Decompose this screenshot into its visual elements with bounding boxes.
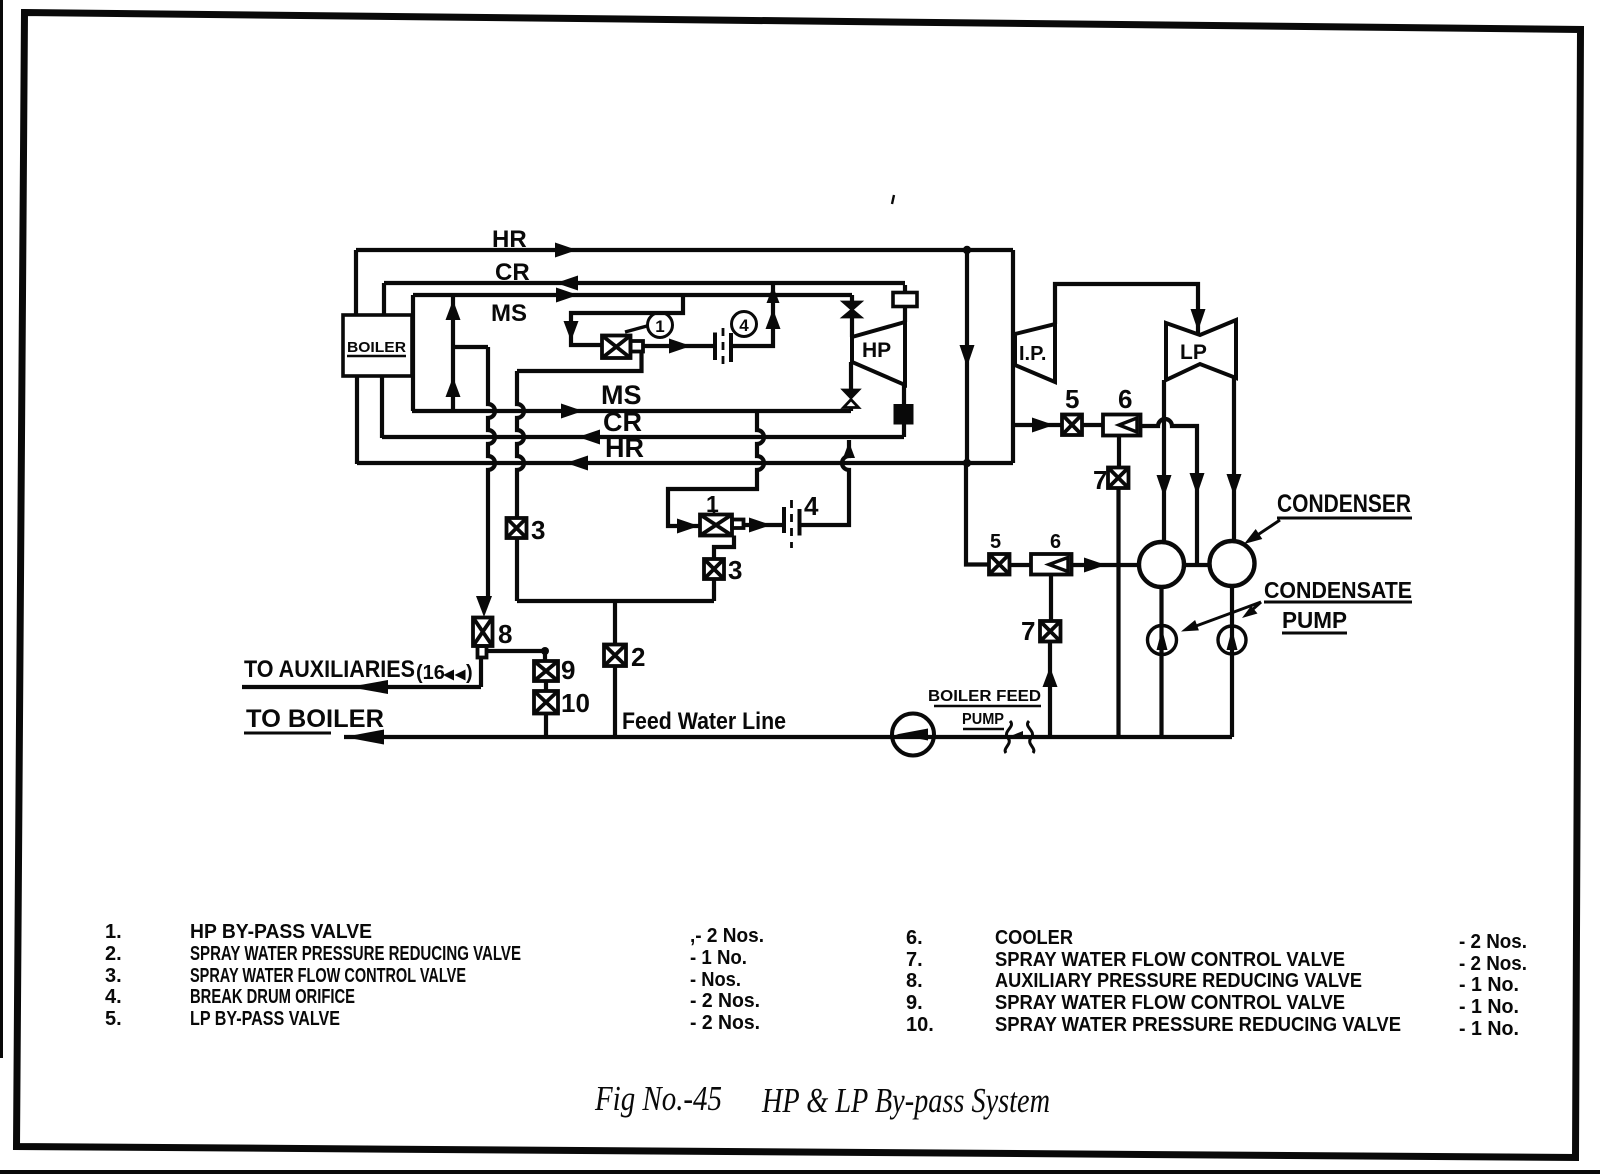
- outer thin bottom edge line: [0, 1170, 1600, 1174]
- wire valve1 upper spray drain: [517, 352, 642, 372]
- svg-text:I.P.: I.P.: [1019, 343, 1046, 365]
- arrow CR bottom: [578, 430, 600, 445]
- valve 9: [534, 661, 558, 681]
- svg-text:HP: HP: [862, 339, 891, 362]
- wire device to CR bottom: [902, 425, 906, 438]
- arrow down into LP: [1191, 309, 1206, 331]
- svg-text:SPRAY WATER FLOW CONTROL VALVE: SPRAY WATER FLOW CONTROL VALVE: [995, 992, 1345, 1014]
- HP bypass assembly upper: wire tap from MS top: [571, 295, 683, 345]
- arrow MS bottom: [561, 404, 583, 419]
- arrow into condenser 1: [1084, 558, 1106, 573]
- svg-text:COOLER: COOLER: [995, 927, 1074, 949]
- wire HP exhaust down: [902, 385, 906, 404]
- svg-text:1: 1: [655, 317, 664, 336]
- svg-text:(16: (16: [416, 662, 445, 684]
- svg-text:2: 2: [631, 642, 645, 672]
- wire boiler top to HR: [354, 250, 358, 316]
- wire valve 7 top down to feed line: [1116, 488, 1120, 737]
- IP turbine: [1015, 324, 1055, 382]
- arrow in pump 2: [1227, 629, 1238, 650]
- svg-text:- 1 No.: - 1 No.: [1459, 996, 1519, 1018]
- node header bottom junction: [963, 459, 971, 467]
- wire stop valve to turbine: [850, 317, 854, 337]
- exhaust device (black square): [894, 404, 914, 425]
- wire LP drain right: [1232, 378, 1236, 541]
- svg-text:7: 7: [1021, 616, 1035, 646]
- svg-text:- 1 No.: - 1 No.: [690, 947, 747, 969]
- svg-text:2.: 2.: [105, 943, 122, 965]
- wire orifice to CR bottom riser with jump: [800, 440, 850, 525]
- wire valve3L down: [515, 538, 519, 601]
- valve 7 bottom: [1040, 621, 1061, 642]
- wire MS riser x453: [451, 295, 455, 411]
- wire cooler top to valve 7 top: [1117, 436, 1121, 468]
- control box on HP exhaust: [893, 293, 917, 307]
- arrow on outlet: [669, 339, 691, 354]
- svg-text:LP: LP: [1180, 341, 1207, 364]
- svg-text:9.: 9.: [906, 992, 923, 1014]
- wire cooler top outlet with jump over LP drain: [1141, 419, 1198, 566]
- svg-text:- 1 No.: - 1 No.: [1459, 1018, 1519, 1040]
- svg-text:MS: MS: [601, 380, 642, 410]
- svg-text:- 2 Nos.: - 2 Nos.: [690, 990, 760, 1012]
- arrow down LP drain right: [1227, 474, 1242, 496]
- wire cooler 6 bottom to valve 7 bottom: [1049, 575, 1053, 622]
- valve 1 lower body: [700, 515, 744, 536]
- svg-text:5: 5: [990, 531, 1001, 553]
- wire condenser connector: [1184, 563, 1210, 567]
- svg-text:HP BY-PASS VALVE: HP BY-PASS VALVE: [190, 921, 372, 943]
- arrow up on riser top: [446, 300, 461, 320]
- svg-text:PUMP: PUMP: [962, 711, 1004, 728]
- svg-text:3.: 3.: [105, 965, 122, 987]
- wire MS bottom line: [412, 409, 851, 413]
- svg-text:HR: HR: [605, 433, 644, 463]
- arrow up on riser bottom: [446, 377, 461, 397]
- svg-text:SPRAY WATER PRESSURE REDUCING: SPRAY WATER PRESSURE REDUCING VALVE: [190, 943, 521, 965]
- svg-text:CONDENSATE: CONDENSATE: [1264, 577, 1412, 603]
- svg-text:4.: 4.: [105, 986, 122, 1008]
- wire LP drain left: [1162, 380, 1166, 542]
- wire IP exhaust to LP inlet: [1055, 284, 1198, 333]
- svg-text:1.: 1.: [105, 921, 122, 943]
- orifice upper (break drum): [715, 328, 731, 367]
- wire MS bottom into lower stop valve: [849, 408, 853, 411]
- svg-text:3: 3: [531, 515, 545, 545]
- wire valve1 lower outlet: [744, 523, 785, 527]
- feed water line: [344, 735, 1232, 739]
- wire CR top to control box: [903, 285, 907, 293]
- svg-text:8.: 8.: [906, 970, 923, 992]
- svg-text:Feed Water Line: Feed Water Line: [622, 708, 786, 735]
- wire CR top line: [384, 281, 905, 285]
- arrow HR top: [555, 243, 577, 258]
- arrow to valve 5 top: [1032, 418, 1054, 433]
- HP turbine: [852, 322, 905, 385]
- arrow up at CR bottom: [843, 442, 855, 458]
- arrow HR bottom: [566, 456, 588, 471]
- wire orifice to CR riser: [731, 285, 773, 346]
- wire valve3R up to valve1 drain: [714, 536, 734, 560]
- svg-text:BREAK DRUM ORIFICE: BREAK DRUM ORIFICE: [190, 986, 355, 1008]
- wire valve8 side tap: [487, 649, 546, 653]
- svg-text:6.: 6.: [906, 927, 923, 949]
- svg-text:BOILER FEED: BOILER FEED: [928, 688, 1041, 705]
- svg-text:9: 9: [561, 655, 575, 685]
- LP bypass top: wire header to valve 5: [1013, 423, 1062, 427]
- svg-text:6: 6: [1118, 384, 1132, 414]
- svg-text:1: 1: [706, 491, 719, 517]
- arrow up into valve 7 bottom: [1043, 667, 1058, 687]
- valve 2: [604, 645, 626, 667]
- arrow down into valve 8: [476, 596, 492, 617]
- stop valve top (hourglass): [844, 302, 861, 317]
- label 1 lower: [706, 491, 719, 517]
- speck mark: [892, 195, 894, 204]
- node header top junction: [963, 246, 971, 254]
- svg-text:HP & LP By-pass System: HP & LP By-pass System: [761, 1081, 1050, 1120]
- condenser 2: [1210, 541, 1255, 586]
- wire boiler right edge MS riser: [411, 295, 415, 411]
- condensate pump 2: [1218, 626, 1246, 654]
- svg-text:6: 6: [1050, 531, 1061, 553]
- wire valve2 to feed line: [613, 666, 617, 737]
- node junction dot: [541, 647, 549, 655]
- svg-text:5: 5: [1065, 384, 1079, 414]
- circled 1 annotation: [648, 313, 673, 338]
- valve 7 top: [1108, 468, 1129, 489]
- arrow down to condenser middle: [1190, 473, 1205, 495]
- arrow on lower outlet: [749, 518, 771, 533]
- wire boiler bottom to HR return: [355, 376, 359, 464]
- arrow in boiler feed pump: [896, 729, 928, 741]
- valve 1 upper body: [602, 336, 643, 359]
- arrow in pump 1: [1157, 629, 1168, 650]
- boiler label: [347, 339, 406, 356]
- svg-text:10.: 10.: [906, 1014, 934, 1036]
- svg-text:Fig No.-45: Fig No.-45: [594, 1079, 722, 1118]
- label TO BOILER: [244, 705, 384, 733]
- wire valve8 to aux line: [479, 658, 483, 688]
- valve 8 pressure reducing: [473, 618, 493, 658]
- svg-text:AUXILIARY PRESSURE REDUCING VA: AUXILIARY PRESSURE REDUCING VALVE: [995, 970, 1362, 992]
- svg-text:7.: 7.: [906, 949, 923, 971]
- wire control box to turbine: [903, 307, 907, 323]
- stop valve bottom (hourglass): [844, 390, 859, 408]
- wire valve10 to feed line: [544, 714, 548, 738]
- svg-text:,- 2 Nos.: ,- 2 Nos.: [690, 925, 764, 947]
- wire cooler bottom to condenser 1: [1072, 563, 1140, 567]
- svg-text:TO BOILER: TO BOILER: [246, 705, 384, 733]
- svg-text:3: 3: [728, 555, 742, 585]
- svg-text:): ): [466, 662, 473, 684]
- svg-text:SPRAY WATER FLOW CONTROL VALVE: SPRAY WATER FLOW CONTROL VALVE: [995, 949, 1345, 971]
- valve 10: [534, 691, 558, 714]
- valve 5 bottom: [989, 554, 1010, 575]
- cooler 6 bottom: [1031, 554, 1072, 575]
- circled 4 annotation: [732, 312, 757, 337]
- svg-text:- 2 Nos.: - 2 Nos.: [1459, 953, 1527, 975]
- label BOILER FEED PUMP: [928, 688, 1041, 729]
- wire to auxiliaries line: [242, 685, 481, 689]
- valve 3 right: [704, 559, 724, 579]
- arrow MS top: [556, 288, 578, 303]
- condensate pump 1: [1148, 626, 1177, 655]
- svg-text:HR: HR: [492, 226, 527, 253]
- reheat header right vertical: [1011, 250, 1015, 463]
- svg-text:BOILER: BOILER: [347, 339, 406, 356]
- wire lower stop valve to turbine: [849, 362, 853, 390]
- svg-text:CR: CR: [495, 259, 530, 286]
- leader dash to circled 1: [625, 326, 647, 332]
- boiler: [343, 315, 412, 376]
- svg-text:PUMP: PUMP: [1282, 607, 1347, 633]
- svg-text:CONDENSER: CONDENSER: [1277, 490, 1411, 518]
- LP bypass bottom: wire header bottom down: [966, 463, 989, 565]
- wire CR bottom line: [382, 435, 904, 439]
- svg-text:SPRAY WATER FLOW CONTROL VALVE: SPRAY WATER FLOW CONTROL VALVE: [190, 965, 466, 987]
- wire down to valve 9: [543, 651, 547, 661]
- svg-text:8: 8: [498, 619, 512, 649]
- wire condenser 2 to pump 2: [1230, 586, 1234, 737]
- label CONDENSATE PUMP with leaders: [1181, 577, 1412, 633]
- wire MS top line: [413, 293, 852, 297]
- arrow up to CR line: [766, 309, 781, 329]
- svg-text:4: 4: [739, 316, 749, 335]
- label CONDENSER with leader: [1244, 490, 1412, 544]
- wire valve 7 bottom to feed line: [1048, 642, 1052, 738]
- wire valve5 to cooler 6 top: [1082, 423, 1103, 427]
- wire valve5b to cooler 6 bottom: [1010, 563, 1032, 567]
- svg-text:- 2 Nos.: - 2 Nos.: [1459, 931, 1527, 953]
- svg-text:7: 7: [1093, 465, 1107, 495]
- svg-text:10: 10: [561, 688, 590, 718]
- boiler feed pump: [892, 714, 934, 756]
- svg-text:- 1 No.: - 1 No.: [1459, 974, 1519, 996]
- HP bypass assembly lower: tap from MS bottom with jumps: [668, 411, 764, 526]
- wire spray to valve 2: [613, 601, 617, 644]
- arrow down in header: [960, 345, 975, 367]
- arrow CR top: [556, 276, 578, 291]
- wire stub to aux spray branch: [453, 345, 488, 349]
- svg-text:4: 4: [804, 491, 819, 521]
- wire valve9 to valve10: [544, 681, 548, 691]
- wire valve1 upper outlet: [643, 344, 713, 348]
- arrow into valve 1 lower: [677, 519, 699, 534]
- arrow tip at CR: [767, 286, 780, 303]
- wire condenser 1 to pump 1: [1159, 587, 1163, 737]
- reheat header left vertical: [965, 250, 969, 463]
- legend column 2: [906, 927, 1527, 1040]
- svg-text:5.: 5.: [105, 1008, 122, 1030]
- valve 5 top: [1062, 415, 1082, 436]
- svg-text:- Nos.: - Nos.: [690, 969, 741, 991]
- arrow to auxiliaries: [349, 680, 388, 694]
- outer thin left edge line: [0, 0, 3, 1058]
- wire spray branch x517 with jumps: [517, 371, 524, 518]
- label TO AUXILIARIES (16 ata): [244, 656, 473, 684]
- valve 3 left: [507, 518, 527, 538]
- pipe break squiggles: [1005, 721, 1034, 753]
- wire spray header horizontal: [517, 599, 714, 603]
- LP turbine (double flow): [1166, 320, 1236, 380]
- svg-text:LP BY-PASS VALVE: LP BY-PASS VALVE: [190, 1008, 340, 1030]
- wire HR bottom line: [357, 461, 1013, 465]
- wire boiler top to CR: [382, 283, 386, 316]
- svg-text:- 2 Nos.: - 2 Nos.: [690, 1012, 760, 1034]
- arrow down on inlet: [564, 321, 579, 341]
- arrow to boiler: [344, 730, 384, 745]
- condenser 1: [1139, 542, 1184, 587]
- small arrow at pipe break: [1013, 731, 1023, 739]
- orifice lower (break drum): [784, 500, 800, 548]
- wire riser to valve 3 right: [712, 579, 716, 601]
- wire MS top into stop valve: [850, 295, 854, 302]
- legend column 1: [105, 921, 764, 1034]
- svg-text:MS: MS: [491, 300, 527, 327]
- svg-text:SPRAY WATER PRESSURE REDUCING: SPRAY WATER PRESSURE REDUCING VALVE: [995, 1014, 1401, 1036]
- title: [594, 1079, 1050, 1120]
- wire boiler bottom to CR return: [380, 376, 384, 438]
- wire HR top line: [356, 248, 1013, 252]
- wire aux spray down branch x488 with jumps: [488, 347, 495, 600]
- cooler 6 top: [1103, 415, 1141, 436]
- arrow down LP drain left: [1157, 475, 1172, 497]
- svg-text:TO AUXILIARIES: TO AUXILIARIES: [244, 656, 415, 683]
